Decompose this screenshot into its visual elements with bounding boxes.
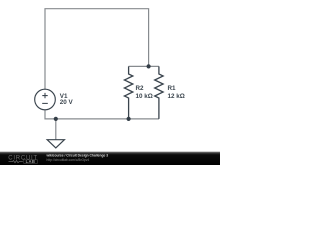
svg-text:LAB: LAB xyxy=(26,159,36,164)
svg-text:http://circuitlab.com/c/8e3pv4: http://circuitlab.com/c/8e3pv4 xyxy=(47,158,90,162)
svg-text:20 V: 20 V xyxy=(60,99,74,106)
svg-text:R1: R1 xyxy=(168,85,177,92)
svg-text:R2: R2 xyxy=(136,85,145,92)
svg-text:10 kΩ: 10 kΩ xyxy=(136,93,153,100)
svg-text:12 kΩ: 12 kΩ xyxy=(168,93,185,100)
